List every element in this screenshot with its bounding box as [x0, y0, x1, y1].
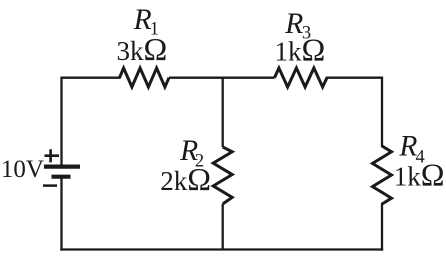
wire: middle branch bottom lead — [222, 204, 224, 250]
battery minus sign — [43, 184, 57, 187]
wire: top-right segment and right branch top lead — [327, 78, 382, 146]
wire: top middle segment (node between R1 and R3) — [169, 77, 275, 79]
wire: right branch bottom lead — [381, 204, 383, 250]
wire: middle branch top lead — [222, 78, 224, 147]
battery V1 negative plate (short) — [52, 175, 71, 179]
svg-text:R: R — [284, 8, 303, 40]
resistor R1 — [120, 68, 170, 87]
wire: left source bottom lead — [60, 177, 62, 250]
resistor R4 — [373, 146, 392, 204]
resistor R3 — [275, 68, 328, 87]
wire: top-left segment and left source top lead — [62, 78, 120, 165]
svg-text:2kΩ: 2kΩ — [160, 161, 211, 197]
resistor R2 — [213, 147, 232, 204]
battery V1 positive plate (long) — [44, 165, 80, 169]
wire: bottom return wire — [62, 248, 383, 250]
battery plus sign — [45, 149, 60, 162]
svg-text:1kΩ: 1kΩ — [394, 157, 445, 193]
svg-text:10V: 10V — [1, 156, 44, 183]
svg-text:3kΩ: 3kΩ — [117, 31, 168, 67]
svg-text:1kΩ: 1kΩ — [275, 31, 326, 67]
